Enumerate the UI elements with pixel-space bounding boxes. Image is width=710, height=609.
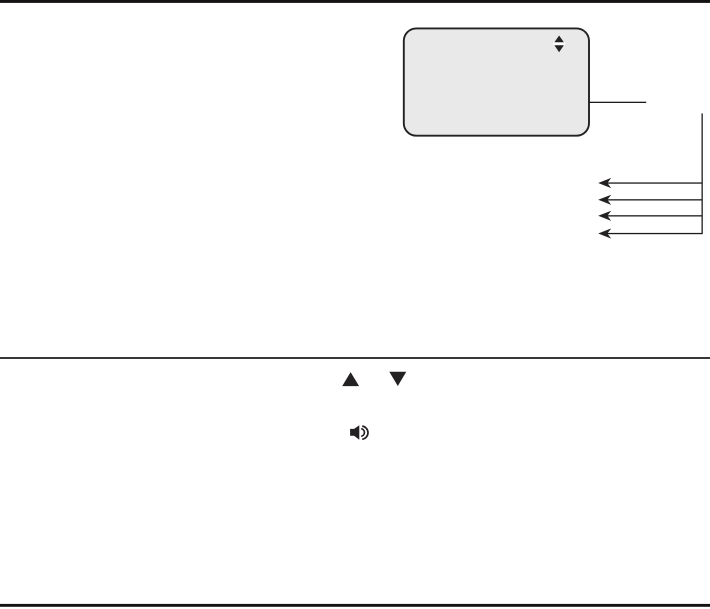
volume up triangle — [342, 372, 359, 386]
callout arrow A3 — [598, 211, 702, 221]
section divider rule — [0, 357, 710, 359]
device body (blank callout box) — [404, 28, 589, 135]
callout bus vertical line — [702, 113, 703, 234]
leader line from device body — [589, 102, 646, 103]
callout arrow A4 — [598, 228, 702, 238]
scroll button down triangle — [554, 45, 564, 52]
callout arrow A2 — [598, 195, 702, 205]
speaker icon inner sound wave — [361, 429, 364, 437]
speaker icon outer sound wave — [362, 426, 368, 439]
callout arrow A1 — [598, 178, 702, 188]
scroll button up triangle — [554, 36, 564, 43]
scroll button white divider band — [553, 42, 565, 45]
volume down triangle — [389, 372, 406, 386]
speaker icon body — [350, 425, 359, 440]
top rule — [0, 0, 710, 3]
bottom rule — [0, 604, 710, 607]
